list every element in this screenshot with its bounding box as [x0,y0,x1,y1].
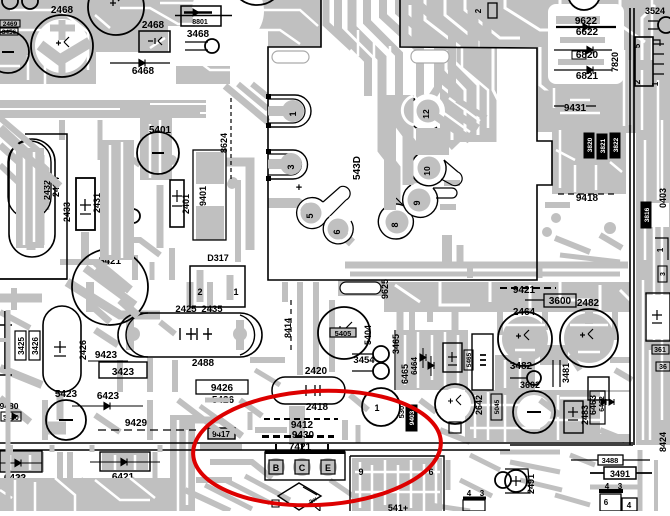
wire [465,0,520,38]
wire [0,118,40,152]
wire [140,118,172,180]
wire [147,400,153,440]
wire [373,40,376,70]
wire [313,282,319,372]
transistor 5421 [72,249,148,325]
wire [552,126,626,194]
svg-text:2418: 2418 [306,402,329,413]
wire [590,485,640,490]
svg-text:3425: 3425 [17,337,26,355]
wire [338,0,368,96]
wire [570,99,590,102]
svg-text:5405: 5405 [335,329,352,338]
resistor 9426 box [196,380,248,394]
capacitor 2468 [31,15,93,77]
wire 9624 dash [230,98,232,180]
wire [130,478,155,498]
wire [14,480,17,511]
svg-text:3602: 3602 [520,380,540,390]
wire [225,86,268,122]
wire [560,112,600,115]
wire [545,202,570,208]
wire [80,480,120,511]
wire [17,475,24,511]
svg-text:2433: 2433 [62,202,72,222]
wire [558,59,604,65]
diode 8801 [193,9,199,16]
wire [230,30,268,85]
svg-text:6465: 6465 [400,364,410,384]
capacitor 2426 [43,306,81,392]
annotation ellipse [190,385,444,512]
wire [355,471,440,474]
wire [599,285,602,310]
svg-text:9401: 9401 [198,186,208,206]
capacitor 2483 [564,401,583,433]
pad 1 finger [268,95,311,127]
wire [510,462,560,472]
svg-text:1: 1 [656,247,665,252]
board edge [510,444,633,446]
wire [623,50,626,130]
label 9417 box [208,428,235,439]
wire [57,392,64,420]
wire [400,0,670,47]
wire [355,491,440,494]
resistor 3482 body [527,371,541,385]
wire [59,58,66,74]
pad 10 tail [441,160,462,186]
svg-text:E: E [325,463,331,473]
wire [169,248,175,280]
transformer 5401 mark [152,152,164,154]
capacitor 2488 body [118,313,262,357]
connector K bar [599,489,623,493]
wire [200,406,242,436]
wire [425,0,460,47]
capacitor 2468 polarity [56,37,69,47]
pad 5 [301,203,322,224]
wire [465,390,630,442]
wire [417,332,420,388]
svg-text:5423: 5423 [55,389,78,400]
wire [92,306,110,322]
svg-text:3816: 3816 [644,207,651,222]
transistor 7421 pin box B [269,460,283,474]
capacitor 2434 inner [8,141,51,218]
resistor 3431 body [126,209,140,223]
wire [447,108,478,128]
wire [200,444,242,450]
wire [60,259,110,265]
resistor 3423 box [99,362,147,378]
capacitor C7 sym [448,395,461,405]
connector 8801 bar [184,11,212,14]
pad 10 [418,157,441,180]
wire [236,320,244,350]
wire [445,0,478,70]
pad 1 finger inner [268,99,305,123]
wire [207,282,213,312]
wire [574,165,577,192]
wire [196,477,232,483]
capacitor 2483 sym [568,407,578,420]
svg-text:2401: 2401 [181,194,191,214]
wire [636,0,670,445]
wire [534,40,634,132]
wire [330,480,362,502]
svg-text:3468: 3468 [187,29,210,40]
wire [225,480,270,503]
wire [643,203,669,227]
wire [457,335,460,385]
pad 10 ring w [415,154,443,182]
diode 6422 [15,460,21,467]
wire [27,150,36,172]
wire [359,462,362,508]
wire [444,332,447,388]
transistor Q1 circle [362,388,400,426]
svg-text:10: 10 [422,166,432,176]
wire [350,272,620,277]
wire [446,460,451,490]
svg-text:5404: 5404 [363,325,373,345]
wire [226,162,250,250]
wire [384,460,387,505]
diode 6423 [104,403,110,410]
wire [439,388,471,420]
wire [27,222,36,250]
svg-text:9: 9 [412,200,422,205]
node pad [551,213,561,223]
wire [356,425,361,443]
svg-text:4: 4 [467,489,472,498]
wire [0,100,206,118]
resistor 3468 body [205,39,219,53]
wire [59,20,66,40]
wire [352,0,396,215]
svg-text:9431: 9431 [564,103,587,114]
wire [371,465,374,511]
transistor 5421 trace [85,268,135,305]
wire [540,95,620,108]
wire [248,412,253,430]
IC 543D pads [266,94,271,181]
wire [610,162,622,172]
wire [427,282,433,322]
resistor 3468 [185,42,208,50]
wire 9423 line [88,360,128,362]
svg-text:3820: 3820 [587,137,594,152]
node 9624 pad [227,179,237,189]
pad 1 stub [268,107,290,116]
wire [268,106,293,116]
wire 3488 [571,459,650,461]
resistor 3481 [553,360,560,387]
label 3820 box [584,133,594,158]
wire [431,335,434,380]
svg-text:9421: 9421 [513,285,536,296]
wire [7,445,13,452]
svg-text:5: 5 [305,213,315,218]
wire [529,285,532,308]
wire [177,420,180,511]
svg-text:3: 3 [286,164,296,169]
IC D317 [190,266,245,307]
svg-text:6464: 6464 [410,357,419,375]
resistor 3454 body2 [373,363,389,379]
transformer 5401 [137,132,179,174]
wire 3465 [394,330,396,390]
svg-text:2491: 2491 [526,474,536,494]
svg-text:8424: 8424 [658,432,668,452]
wire [470,455,500,470]
wire [440,85,452,140]
wire [495,355,535,390]
diode 6421 line [90,461,160,463]
resistor 9401 [193,150,226,240]
wire [178,400,220,432]
capacitor top right arc [568,0,600,10]
svg-text:3488: 3488 [602,456,619,465]
wire [641,70,644,130]
pot 2491 box [505,469,530,493]
capacitor 2401 [170,180,184,227]
wire [556,16,600,24]
connector L bar [463,497,486,500]
wire [268,203,310,211]
wire [555,238,590,252]
wire [644,140,647,260]
IC 543D outline [268,0,552,280]
wire [409,312,415,372]
svg-text:4: 4 [605,482,610,491]
node pad [167,155,177,165]
wire [504,360,507,388]
wire [545,120,615,130]
wire [0,65,20,68]
wire [449,98,480,121]
svg-text:543D: 543D [352,156,363,180]
wire [235,180,241,262]
diode D1 [420,348,426,368]
diode 6462 [601,399,606,405]
wire [250,357,285,363]
capacitor C4 left [0,31,29,73]
wire [35,19,89,73]
label 3816 box [641,202,651,228]
wire [493,47,498,142]
transistor 7421 leads [276,444,328,452]
svg-text:1: 1 [233,287,238,297]
svg-text:541+: 541+ [388,503,408,511]
wire [282,282,288,302]
wire [416,128,449,155]
svg-text:3482: 3482 [510,361,533,372]
wire [570,355,580,370]
wire 9418 dash [558,193,616,195]
svg-text:9426: 9426 [211,383,234,394]
label 3456 [0,28,18,35]
wire [297,282,303,375]
wire [595,165,598,190]
transistor 7421 pin box C [295,460,309,474]
wire [403,95,414,185]
wire [437,117,470,140]
svg-text:2468: 2468 [142,20,165,31]
wire [172,360,178,392]
node pad [542,227,552,237]
label 5045 box [491,394,502,420]
wire [384,282,630,312]
wire [615,370,632,380]
part 2 top [488,3,497,18]
diode 9622 [583,24,589,31]
svg-text:3426: 3426 [31,337,40,355]
wire [252,84,268,97]
pad 10 finger [411,153,446,186]
wire [197,270,204,302]
pad 6 [328,219,349,240]
wire [505,324,545,327]
wire [350,395,368,410]
svg-text:1: 1 [374,403,379,413]
resistor 3524 body [658,17,670,33]
wire [440,430,470,442]
pad 3 finger [268,150,308,179]
diode 6468 line [110,62,170,64]
svg-text:7820: 7820 [610,52,620,72]
pad 12 clear [402,96,414,125]
diode 9622 line [556,26,616,28]
diode bridge sq1 [272,500,279,507]
wire [435,460,438,505]
wire [560,255,620,262]
capacitor 3426 box [29,331,40,360]
capacitor 2431 sym [80,199,91,214]
wire [620,290,632,302]
pad 8 tail [396,198,413,218]
wire [470,404,530,407]
wire [600,235,622,248]
pad 3 [280,153,302,175]
wire [170,415,195,511]
wire [0,490,12,498]
wire [440,47,502,142]
capacitor 2426 sym [54,341,66,356]
resistor C4 mark [2,51,14,53]
diode 6468 [139,60,145,67]
wire [95,415,120,432]
transistor 7421 body [265,452,345,480]
label 3821 box [597,134,607,159]
wire [196,206,224,240]
wire [81,232,89,260]
wire [9,455,12,470]
wire [585,310,593,324]
label 36 box [656,362,670,371]
wire [410,460,413,508]
svg-text:3822: 3822 [613,137,620,152]
wire [383,0,428,108]
wire [196,152,224,184]
wire [657,80,660,200]
capacitor C7 circle [435,384,475,424]
capacitor 2468b sym [148,37,162,45]
wire [50,25,75,32]
wire [440,282,470,305]
label 3 box [658,266,667,282]
wire [0,398,30,422]
pad 1 [282,100,304,122]
wire [121,142,124,258]
wire [545,419,628,422]
wire [560,282,590,300]
wire [610,357,630,363]
wire [0,132,60,186]
wire [240,400,262,416]
wire [455,47,478,135]
svg-text:B: B [273,463,280,473]
wire [190,55,240,70]
wire [117,360,123,392]
wire [326,0,352,48]
wire [0,47,268,85]
wire [340,232,352,243]
svg-text:6: 6 [604,498,609,507]
svg-text:3: 3 [618,482,623,491]
wire [515,349,535,352]
wire [187,282,194,312]
wire [423,464,426,511]
wire [384,95,396,210]
wire [95,270,125,292]
svg-text:2: 2 [633,79,642,84]
wire [329,300,335,372]
wire [540,47,552,95]
pad 5 finger [297,198,326,229]
wire [86,282,94,312]
connector 8801 bar2 [175,15,232,17]
node pad [604,222,616,234]
transistor 5405 [318,307,370,359]
wire [395,285,420,302]
wire [570,0,598,12]
capacitor arc tl1 [2,0,18,9]
wire [153,452,158,480]
capacitor 2418 sym [306,385,320,396]
wire [389,46,392,72]
wire [645,295,670,339]
wire [102,453,148,470]
svg-text:3600: 3600 [549,296,572,307]
wire [212,0,218,30]
capacitor 2482 sym [580,329,593,339]
transistor 7421 pad C [293,458,311,476]
wire [160,322,175,334]
capacitor C3 top [230,0,284,5]
wire [120,8,240,24]
capacitor 2432 outer [9,139,55,257]
label 361 box [652,345,669,354]
transistor 7421 pin box E [321,460,335,474]
wire [27,55,30,80]
wire [497,312,503,335]
wire [96,52,176,85]
wire [661,120,664,420]
wire [616,40,670,133]
wire [95,15,110,28]
